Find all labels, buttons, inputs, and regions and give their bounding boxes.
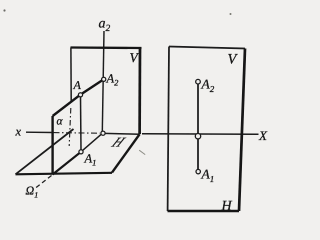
x axis dash-dot hidden part <box>54 132 100 135</box>
speck top-right <box>230 13 232 15</box>
line a (through A up to A2) <box>53 79 104 116</box>
svg-text:α: α <box>57 116 64 128</box>
plane V left edge hidden (dash-dot) <box>69 108 71 146</box>
point Ax on axis (left) <box>101 131 105 135</box>
svg-text:x: x <box>15 125 22 139</box>
point A2 (left) <box>102 77 106 81</box>
plane V top edge <box>71 46 142 49</box>
svg-text:A: A <box>73 78 82 92</box>
svg-text:H: H <box>221 199 233 214</box>
point A1 (left) <box>79 150 83 154</box>
plane V right edge <box>138 48 141 134</box>
point A1 (right) <box>196 169 200 173</box>
line a1 thin part (A1 to Ax) <box>81 134 101 152</box>
point A2 (right) <box>196 79 201 84</box>
epure rectangle left edge <box>168 47 169 212</box>
plane H right edge <box>112 134 140 172</box>
projection connector line A2-Ax-A1 <box>197 84 199 170</box>
stray pencil mark right of H plane <box>139 150 145 154</box>
plane H bottom edge <box>16 173 113 175</box>
point Ax on axis (right) <box>195 134 200 139</box>
plane V left edge (visible part) <box>70 48 72 102</box>
point A <box>78 93 82 97</box>
x axis solid left part <box>26 131 52 133</box>
ray A to A1 <box>80 97 83 151</box>
epure rectangle right edge <box>239 49 245 212</box>
speck top-left <box>3 9 5 11</box>
svg-text:X: X <box>258 128 268 143</box>
epure rectangle bottom edge <box>168 210 240 213</box>
plane H left edge <box>16 129 74 174</box>
line a1 thick part (plane alpha bottom edge) <box>53 152 81 175</box>
plane alpha left edge <box>51 116 53 175</box>
line a1 dashed extension to label <box>36 176 52 189</box>
epure rectangle top edge <box>169 47 245 49</box>
fold line solid right part <box>105 132 140 135</box>
line a2 (frontal projection, vertical) <box>102 31 104 132</box>
X axis (right figure) <box>142 133 259 136</box>
